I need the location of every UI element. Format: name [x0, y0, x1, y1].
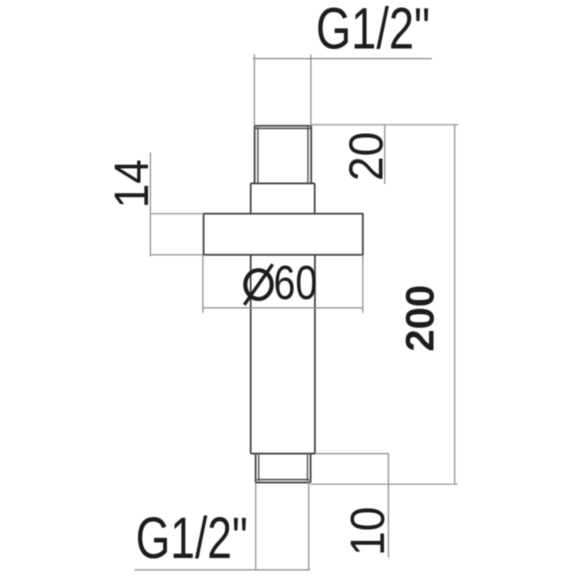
200 dimension line [454, 125, 456, 485]
top thread outer right [310, 126, 312, 184]
bottom thread inner left [258, 454, 260, 481]
svg-text:200: 200 [398, 285, 442, 352]
bottom thread inner right [307, 454, 309, 481]
pipe upper left edge [250, 183, 252, 214]
bottom G1/2 dimension line [134, 569, 310, 571]
pipe bottom shoulder [251, 453, 315, 455]
bottom thread outer left [255, 454, 257, 483]
label dia60 diameter symbol circle [245, 270, 271, 299]
shoulder extension for 10 dim [315, 453, 389, 455]
top extension line right [310, 55, 312, 126]
pipe top shoulder [251, 182, 315, 184]
svg-text:G1/2": G1/2" [136, 505, 248, 570]
10 dimension line [387, 454, 389, 558]
bottom extension line right [308, 483, 310, 570]
svg-text:10: 10 [340, 507, 394, 556]
14 extension line top [150, 213, 204, 215]
top thread top edge [255, 125, 312, 127]
pipe lower right edge [314, 255, 316, 454]
svg-text:20: 20 [339, 132, 393, 181]
pipe lower left edge [250, 255, 252, 454]
label dia60 diameter symbol slash [244, 264, 272, 305]
bottom extension line left [255, 483, 257, 570]
bottom thread outer right [310, 454, 312, 483]
pipe upper right edge [314, 183, 316, 214]
svg-text:60: 60 [274, 257, 318, 311]
bottom thread bottom edge [256, 482, 311, 484]
svg-text:G1/2": G1/2" [316, 0, 430, 62]
thread top extension to right [311, 124, 458, 126]
dimension line group [134, 55, 458, 570]
thread bottom extension to right [311, 483, 458, 485]
top thread inner left [257, 127, 259, 183]
14 dimension line [149, 153, 151, 257]
dia60 dimension line [203, 307, 363, 309]
shower arm body group [204, 126, 363, 483]
top thread inner right [307, 127, 309, 183]
flange rectangle [204, 214, 363, 255]
20 dimension line [384, 125, 386, 184]
14 extension line bottom [150, 254, 204, 256]
top thread inner top [255, 127, 310, 129]
top extension line left [253, 55, 255, 126]
thread root lines group [255, 127, 310, 481]
top G1/2 dimension line [253, 58, 432, 60]
bottom thread inner bottom [257, 479, 309, 481]
dia60 extension line left [202, 255, 204, 313]
top thread outer left [254, 126, 256, 184]
dia60 extension line right [362, 255, 364, 313]
svg-text:14: 14 [104, 159, 158, 208]
